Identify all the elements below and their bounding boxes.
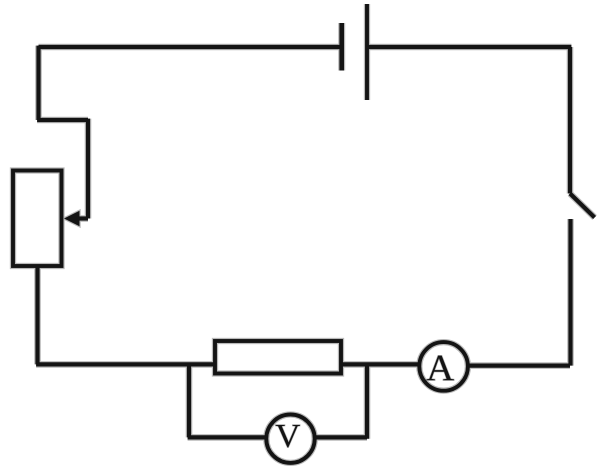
resistor R body <box>215 341 341 374</box>
voltmeter label V <box>276 425 300 448</box>
switch blade (open) <box>570 194 595 218</box>
battery positive plate (long) <box>365 4 369 100</box>
wire: wiper horizontal stub <box>77 216 88 220</box>
wire: rheostat bottom lead <box>35 266 39 364</box>
wire: bottom-left horizontal to resistor <box>36 362 213 366</box>
wire: right vertical below switch <box>568 219 572 366</box>
arrowhead of rheostat wiper <box>64 211 80 226</box>
wire: voltmeter branch bottom-left horizontal <box>188 435 266 439</box>
battery negative plate (short) <box>339 23 344 71</box>
wire: wiper vertical drop <box>86 119 90 219</box>
wire: ammeter to bottom-right corner <box>468 364 570 368</box>
wire: resistor to ammeter <box>341 362 420 366</box>
wire: battery negative plate to top-left corner <box>39 45 342 49</box>
wire: right vertical above switch <box>568 47 572 194</box>
wire: top-right horizontal to battery positive plate <box>367 45 571 49</box>
voltmeter body <box>266 415 314 463</box>
wire: horizontal jog toward wiper <box>37 118 88 122</box>
ammeter label A <box>426 356 453 381</box>
wire: left vertical down from top-left corner <box>36 46 40 120</box>
wire: voltmeter branch left vertical <box>187 363 191 437</box>
ammeter body <box>419 342 468 391</box>
rheostat body <box>13 171 62 267</box>
wire: voltmeter branch bottom-right horizontal <box>315 435 367 439</box>
wire: voltmeter branch right vertical <box>365 363 369 439</box>
